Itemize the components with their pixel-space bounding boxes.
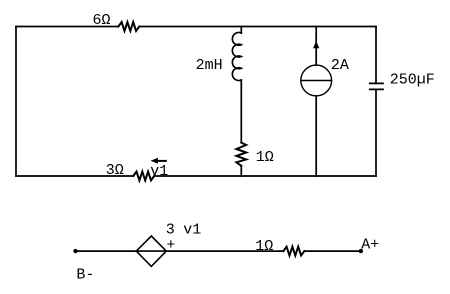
svg-text:6Ω: 6Ω <box>93 12 111 29</box>
dependent source U1 diamond 3v1 <box>136 236 166 266</box>
svg-text:3Ω: 3Ω <box>106 162 124 179</box>
arrow v1 (current direction) <box>151 158 158 164</box>
current source arrow <box>313 41 319 48</box>
svg-text:B-: B- <box>76 266 94 283</box>
svg-text:v1: v1 <box>150 163 168 180</box>
resistor R 3ohm zigzag <box>133 172 154 181</box>
wire inductor-to-resistor segment <box>240 80 242 143</box>
node A dot <box>359 249 363 253</box>
node B dot <box>73 249 77 253</box>
svg-text:A+: A+ <box>361 237 379 254</box>
inductor L 2mH coil <box>232 32 241 80</box>
wire bottom-branch middle <box>166 250 283 252</box>
capacitor C 250uF plates <box>370 83 383 89</box>
wire left side <box>15 27 17 177</box>
svg-text:250µF: 250µF <box>390 71 435 88</box>
wire right side lower (from capacitor) <box>375 89 377 176</box>
wire current-source branch top <box>315 27 317 66</box>
wire top-left segment <box>16 26 118 28</box>
svg-text:1Ω: 1Ω <box>256 149 274 166</box>
wire resistor-to-bottom stub <box>240 166 242 176</box>
wire bottom-left segment <box>16 175 133 177</box>
svg-text:2mH: 2mH <box>196 57 223 74</box>
wire right side upper (to capacitor) <box>375 27 377 84</box>
wire bottom-right segment <box>154 175 376 177</box>
current source bar <box>301 80 332 82</box>
svg-text:3: 3 <box>166 222 175 239</box>
resistor R 6ohm zigzag <box>118 22 139 31</box>
wire top-right segment <box>139 26 376 28</box>
resistor R 1ohm vertical zigzag <box>236 143 246 166</box>
svg-text:v1: v1 <box>183 222 201 239</box>
wire inductor branch top stub <box>240 27 242 34</box>
wire current-source branch bottom <box>315 96 317 176</box>
resistor R 1ohm bottom zigzag <box>283 247 304 256</box>
wire bottom-branch right <box>304 250 361 252</box>
current source I 2A circle <box>301 65 332 96</box>
svg-text:+: + <box>166 237 175 254</box>
svg-text:2A: 2A <box>331 57 349 74</box>
svg-text:1Ω: 1Ω <box>255 238 273 255</box>
wire bottom-branch left <box>76 250 137 252</box>
